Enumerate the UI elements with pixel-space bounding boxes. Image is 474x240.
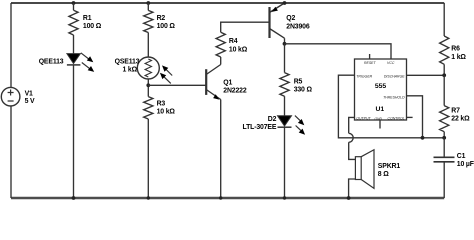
svg-text:QEE113: QEE113 [39,58,64,65]
capacitor C1 [434,157,455,162]
wire C1 to ground rail [443,162,445,198]
node discharge junction [442,73,446,77]
pin GND stub [379,120,381,129]
node bottom of D2 branch [283,196,286,199]
svg-text:DISCHARGE: DISCHARGE [384,75,405,79]
svg-text:OUTPUT: OUTPUT [356,117,371,121]
node R7/C1 junction [442,136,446,140]
svg-text:2N3906: 2N3906 [286,23,310,30]
svg-text:R6: R6 [451,46,460,53]
speaker SPKR1 [355,157,361,180]
wire bottom rail [11,197,444,199]
svg-text:1 kΩ: 1 kΩ [122,67,137,74]
wire OUTPUT to speaker with hop [349,117,356,159]
svg-text:10 kΩ: 10 kΩ [229,46,248,53]
svg-text:LTL-307EE: LTL-307EE [243,124,277,131]
pin CONTROL stub [407,116,413,118]
svg-text:R5: R5 [294,79,303,86]
resistor R3 [144,97,153,119]
svg-text:CONTROL: CONTROL [388,117,405,121]
pin RESET stub [369,54,371,59]
wire V1 top lead [10,3,12,88]
node Q2 emitter on top rail [283,1,287,5]
svg-text:C1: C1 [457,153,466,160]
svg-text:Q2: Q2 [286,15,295,22]
svg-text:SPKR1: SPKR1 [378,163,401,170]
voltage source V1 [1,87,20,106]
resistor R2 [144,10,153,32]
op-amp U1 555 timer box [355,59,407,120]
wire R7 bottom [443,132,445,138]
wire D2 to ground rail [284,127,286,198]
svg-text:D2: D2 [268,116,277,123]
wire top rail [11,2,444,4]
wire Q1 collector [220,57,222,65]
wire QSE113 to node [147,79,149,97]
svg-text:22 kΩ: 22 kΩ [451,116,470,123]
svg-text:GND: GND [375,117,383,121]
resistor R7 [440,106,449,132]
wire Q1 emitter to ground [220,100,222,199]
wire DISCHARGE to R6/R7 junction [407,74,445,76]
photocell QSE113 [137,57,159,79]
svg-text:10 µF: 10 µF [457,161,474,168]
svg-text:100 Ω: 100 Ω [157,23,176,30]
resistor R6 [440,36,449,64]
svg-text:U1: U1 [375,106,384,113]
wire THRESHOLD to bus [407,96,423,138]
resistor R4 [216,32,225,57]
wire R4 to Q2 base [221,22,270,32]
wire D1 to ground rail [73,65,75,198]
resistor R1 [69,10,78,35]
wire R1 top lead [73,3,75,10]
wire Q2 collector [284,38,286,44]
node bottom of Q1 branch [219,196,222,199]
wire base of Q1 [148,84,206,86]
LED D2 [278,116,292,126]
svg-text:R3: R3 [157,101,166,108]
wire R1 to D1 [73,35,75,54]
svg-text:THRESHOLD: THRESHOLD [383,95,405,99]
svg-text:R4: R4 [229,38,238,45]
node base junction [146,83,150,87]
wire junction to R7 [443,75,445,105]
resistor R5 [280,73,289,97]
svg-text:TRIGGER: TRIGGER [356,75,372,79]
node bottom of D1 branch [72,196,76,200]
svg-text:10 kΩ: 10 kΩ [157,109,176,116]
svg-text:1 kΩ: 1 kΩ [451,54,466,61]
svg-text:100 Ω: 100 Ω [83,23,102,30]
svg-text:RESET: RESET [364,61,376,65]
svg-text:330 Ω: 330 Ω [294,87,313,94]
svg-text:Q1: Q1 [223,80,232,87]
wire TRIGGER to threshold bus [338,75,444,138]
svg-text:555: 555 [375,83,387,90]
wire R2 to QSE113 [147,33,149,58]
svg-text:R2: R2 [157,15,166,22]
wire R6 bottom [443,64,445,75]
node top of R2 [146,1,150,5]
node threshold junction [421,136,425,140]
node speaker ground [347,196,351,200]
svg-text:5 V: 5 V [25,98,35,105]
wire R3 to ground rail [147,119,149,198]
wire junction to C1 [443,138,445,157]
wire R2 top lead [147,3,149,10]
node bottom of R3 branch [147,196,150,199]
node top of R1 [72,1,76,5]
svg-text:R7: R7 [451,108,460,115]
node Q2 collector junction [283,42,287,46]
svg-text:R1: R1 [83,15,92,22]
svg-text:QSE113: QSE113 [115,58,140,65]
svg-text:8 Ω: 8 Ω [378,171,389,178]
wire V1 bottom lead [10,106,12,198]
svg-text:VCC: VCC [387,61,395,65]
wire speaker bottom lead [349,179,356,198]
transistor Q2 [268,7,270,38]
svg-text:V1: V1 [25,90,33,97]
wire node to R5 [284,44,286,73]
svg-text:2N2222: 2N2222 [223,88,247,95]
transistor Q1 [205,69,207,95]
LED QEE113 [67,54,81,64]
wire collector to VCC of 555 [285,44,392,59]
wire R5 to D2 [284,96,286,116]
wire R6 top lead from rail [443,3,445,36]
